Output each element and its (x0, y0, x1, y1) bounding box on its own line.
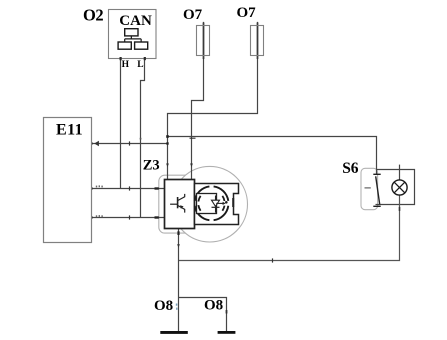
gray outline Z3 module (rounded rect) (159, 175, 201, 233)
fuse O7 right (251, 26, 264, 56)
brush dot (225, 201, 228, 204)
svg-text:L: L (137, 60, 143, 70)
wire lamp to motor return (179, 195, 400, 260)
svg-text:O8: O8 (204, 297, 223, 313)
svg-text:CAN: CAN (119, 13, 152, 29)
lamp bottom tick (399, 207, 401, 211)
fuse O7 left element wire (203, 23, 205, 60)
wire E11 pin3 (92, 217, 165, 219)
control unit E11 (44, 118, 92, 243)
wire CAN-H (120, 58, 122, 189)
junction dot wire1/A (166, 142, 168, 144)
feed arrowhead (223, 202, 226, 205)
pin dot E11-1 (90, 142, 93, 145)
CAN pin nub L (144, 57, 146, 60)
CAN icon right node (135, 42, 148, 49)
wire to right ground O8 (179, 298, 227, 332)
connector O2 CAN box (109, 10, 157, 59)
nub right ground wire (226, 310, 228, 314)
pin dash wire2 (155, 187, 159, 189)
CAN icon top node (125, 29, 138, 36)
specks wire2 (96, 186, 97, 188)
ground bar right (218, 331, 236, 334)
down arrow wire B (190, 164, 193, 168)
tick wire1 (129, 141, 131, 145)
switch S6 gray outline (361, 168, 378, 209)
svg-text:O7: O7 (183, 7, 203, 23)
svg-text:E11: E11 (56, 121, 83, 138)
tick return line (272, 258, 274, 262)
tick CAN-L above wire1 (140, 138, 142, 140)
transistor in Z3 (170, 194, 185, 213)
motor brush stub west lower (195, 206, 198, 208)
wire E11 pin1 (92, 143, 168, 145)
wire to switch S6 (168, 137, 377, 175)
wire motor to ground (178, 228, 180, 331)
diode cathode lead (215, 207, 217, 212)
wire lamp loop top/right/bottom (376, 170, 415, 205)
switch actuator dash (365, 187, 371, 189)
pin dash motor bottom (177, 231, 179, 235)
pin dash wire3 (155, 216, 159, 218)
arrow on wire1 (94, 141, 99, 146)
lamp circle (392, 180, 407, 195)
switch blade (376, 176, 380, 204)
diode triangle (212, 200, 220, 206)
svg-text:S6: S6 (342, 160, 359, 177)
tick wire3 (129, 215, 131, 219)
fuse O7 left (197, 26, 210, 56)
CAN pin nub H (120, 57, 122, 60)
junction dot A (166, 135, 169, 138)
motor feed line east (216, 202, 223, 204)
lamp X (394, 182, 405, 193)
motor brush stub west upper (195, 199, 198, 201)
svg-text:Z3: Z3 (143, 158, 160, 174)
switch top contact (373, 173, 380, 175)
svg-text:H: H (122, 60, 130, 70)
switch bottom contact (373, 205, 380, 207)
motor box with brush notch (195, 184, 239, 225)
motor inner ring brush arcs (198, 196, 224, 211)
diode cathode bar (212, 206, 220, 208)
blue specks near O8 (176, 304, 178, 306)
svg-text:O2: O2 (83, 6, 103, 25)
brush bar (232, 198, 234, 207)
svg-text:O7: O7 (237, 5, 257, 21)
wire from fuse O7 left to Z3 module (192, 22, 204, 180)
svg-text:O8: O8 (154, 298, 173, 314)
wire from fuse O7 right to Z3 module (168, 22, 258, 180)
tick at B crossing (190, 137, 196, 139)
ground bar left (160, 331, 188, 334)
pin dot E11-3 (90, 216, 93, 219)
wire E11 pin2 (92, 188, 165, 190)
CAN icon left node (118, 42, 131, 49)
wire lamp top stub (399, 165, 401, 180)
down arrow motor wire (177, 244, 180, 248)
motor outer ring arcs (195, 186, 229, 220)
suppression box in motor (197, 194, 217, 214)
diode anode lead (215, 196, 217, 201)
Z3 module box (165, 180, 195, 229)
motor body circle (gray) (172, 166, 248, 242)
specks wire3 (96, 215, 97, 217)
CAN icon bus lines (125, 36, 141, 42)
pin dot E11-2 (90, 187, 93, 190)
transistor emitter arrow (180, 205, 184, 208)
tick wire2 (129, 186, 131, 190)
fuse O7 right element wire (257, 23, 259, 60)
wire CAN-L (141, 58, 145, 218)
down arrow wire A (166, 164, 169, 168)
